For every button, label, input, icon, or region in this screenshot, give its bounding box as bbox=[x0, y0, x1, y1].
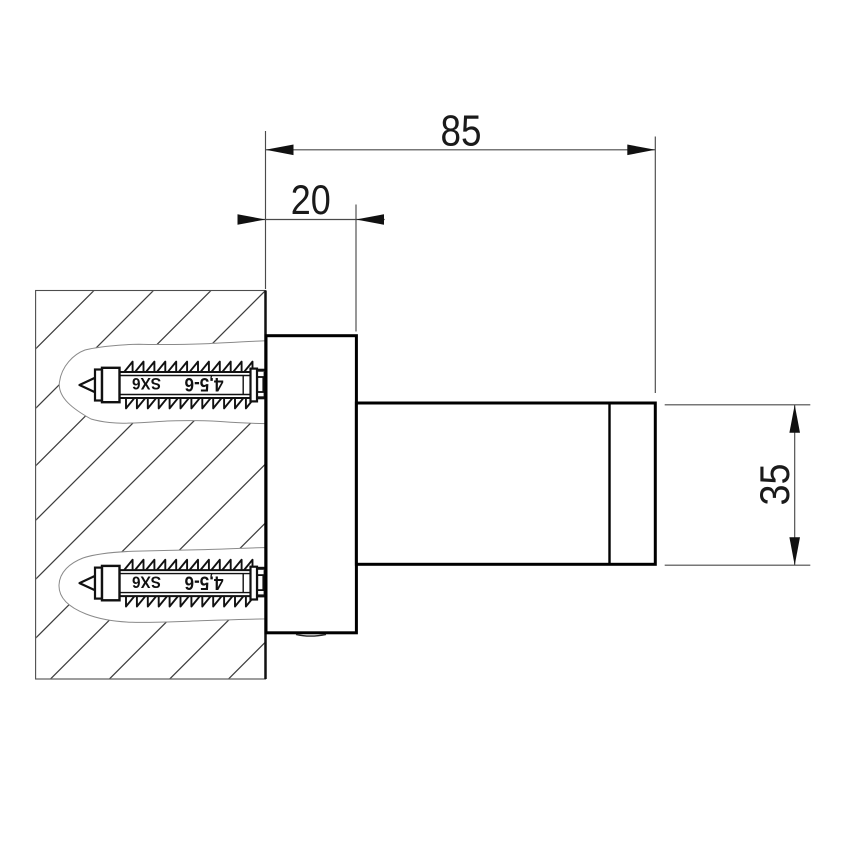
arrow 20 left (outside) bbox=[238, 214, 266, 225]
drill hole blob around plug 2 bbox=[59, 548, 265, 623]
arrow 85 right bbox=[627, 145, 655, 156]
dimension line 35 bbox=[794, 405, 796, 565]
arrow 20 right (outside) bbox=[356, 214, 384, 225]
wall plug with screw 1 bbox=[80, 362, 266, 409]
wall hatching bbox=[0, 291, 266, 850]
drill hole blob around plug 1 bbox=[59, 341, 266, 424]
cylinder cap seam line bbox=[608, 403, 610, 564]
arrow 85 left bbox=[266, 145, 294, 156]
arrow 35 top bbox=[789, 405, 800, 433]
extension line 35 top bbox=[665, 404, 811, 406]
svg-text:85: 85 bbox=[441, 107, 482, 156]
cylinder body bbox=[356, 403, 655, 564]
extension line 85 right bbox=[654, 137, 656, 394]
extension line 35 bottom bbox=[665, 564, 811, 566]
wall section outline bbox=[36, 291, 266, 680]
arrow 35 bottom bbox=[789, 537, 800, 565]
mounting plate bbox=[266, 336, 356, 633]
dimension line 85 bbox=[266, 149, 656, 151]
svg-text:35: 35 bbox=[751, 464, 798, 506]
dimension line 20 bbox=[238, 219, 385, 221]
svg-text:20: 20 bbox=[291, 176, 331, 223]
extension line 20 right bbox=[355, 205, 357, 332]
wall plug with screw 2 bbox=[80, 560, 266, 607]
extension line left (85/20) bbox=[265, 131, 267, 289]
plate bottom bump detail bbox=[296, 634, 326, 636]
wall front face edge bbox=[264, 291, 267, 680]
